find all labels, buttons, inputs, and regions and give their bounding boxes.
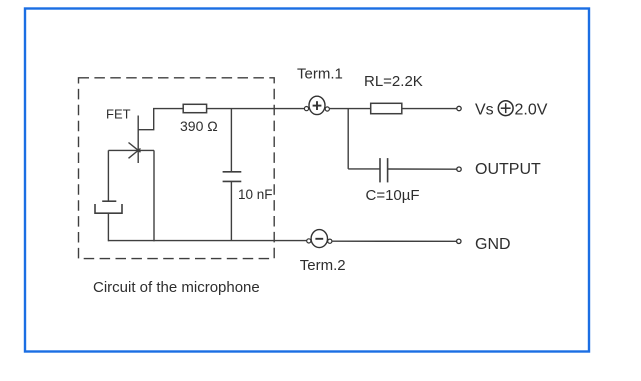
wire capacitor 10nF upper — [230, 109, 232, 172]
svg-text:390 Ω: 390 Ω — [180, 118, 218, 134]
capacitor 10 nF — [223, 172, 242, 182]
wire source vertical — [153, 150, 155, 241]
svg-text:Term.1: Term.1 — [297, 65, 343, 82]
node GND terminal — [457, 239, 461, 243]
wire top rail right — [330, 108, 371, 110]
svg-text:Term.2: Term.2 — [300, 257, 346, 274]
node Vs terminal — [457, 106, 461, 110]
node OUTPUT terminal — [457, 167, 461, 171]
svg-text:GND: GND — [475, 236, 511, 253]
wire RL junction vertical — [347, 109, 349, 169]
terminal Term.1 (+) — [304, 96, 329, 114]
wire electret top vertical — [107, 150, 109, 201]
wire to GND terminal — [332, 240, 457, 242]
wire top rail middle — [207, 108, 305, 110]
wire bottom rail — [108, 240, 306, 242]
terminal Term.2 (-) — [307, 230, 332, 248]
dashed microphone enclosure — [79, 78, 275, 259]
transistor FET gate arrow — [129, 143, 141, 159]
electret capsule capacitor plate — [102, 200, 116, 202]
wire electret bottom vertical — [107, 213, 109, 241]
plus-in-circle symbol — [498, 101, 513, 116]
transistor FET (channel) — [137, 116, 139, 164]
svg-text:RL=2.2K: RL=2.2K — [364, 73, 423, 90]
svg-text:FET: FET — [106, 107, 131, 122]
resistor RL — [371, 103, 402, 113]
electret capsule cup — [95, 204, 122, 213]
svg-text:Circuit of the microphone: Circuit of the microphone — [93, 279, 260, 296]
svg-text:2.0V: 2.0V — [515, 102, 548, 119]
wire to Vs terminal — [402, 108, 457, 110]
resistor 390 ohm — [183, 104, 206, 112]
svg-text:Vs: Vs — [475, 102, 494, 119]
wire capacitor 10nF lower — [230, 181, 232, 240]
wire to coupling capacitor — [348, 168, 380, 170]
wire gate horizontal — [108, 149, 154, 151]
transistor FET drain tap — [138, 109, 154, 130]
svg-text:10 nF: 10 nF — [238, 187, 273, 202]
svg-text:C=10µF: C=10µF — [366, 187, 420, 204]
svg-text:OUTPUT: OUTPUT — [475, 161, 541, 178]
capacitor C=10uF — [380, 158, 388, 182]
wire top rail left — [153, 108, 183, 110]
wire to OUTPUT terminal — [388, 168, 457, 170]
